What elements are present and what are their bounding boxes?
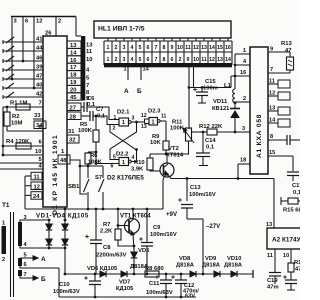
- svg-text:2: 2: [2, 257, 5, 263]
- svg-text:15: 15: [269, 150, 275, 156]
- svg-text:34: 34: [36, 123, 43, 129]
- svg-text:R4 120K: R4 120K: [6, 139, 30, 145]
- pin 11 box: [25, 172, 42, 180]
- svg-text:28: 28: [70, 114, 77, 120]
- capacitor C7 0,1: [81, 107, 106, 121]
- svg-text:11: 11: [86, 49, 93, 55]
- svg-text:L1: L1: [224, 83, 232, 89]
- node A arrow: [124, 88, 129, 95]
- svg-text:2: 2: [115, 45, 118, 51]
- pin 3 of A1: [235, 126, 250, 132]
- svg-text:7: 7: [24, 272, 27, 278]
- diode VD2: [46, 219, 52, 250]
- IC D1 KR145IK1901: [43, 36, 67, 215]
- op-amp U gate D2.3: [141, 109, 167, 131]
- pin 13 box of D1: [67, 41, 81, 49]
- svg-text:13: 13: [141, 124, 147, 130]
- pin 45 box of D1: [67, 93, 81, 101]
- pin 1 label of D1: [61, 149, 65, 155]
- pin 34 box: [34, 121, 46, 129]
- pin 2 of A1: [235, 96, 250, 102]
- svg-text:D2.2: D2.2: [116, 152, 129, 158]
- svg-text:А: А: [41, 256, 46, 263]
- resistor R15 68: [281, 197, 302, 214]
- pin 31 label: [68, 129, 75, 135]
- svg-text:10: 10: [193, 57, 199, 63]
- pin 18 box of D1: [67, 71, 81, 79]
- svg-text:31: 31: [68, 129, 75, 135]
- svg-text:S7: S7: [95, 175, 103, 181]
- svg-text:4: 4: [131, 45, 134, 51]
- node +9V: [166, 211, 178, 218]
- svg-text:10: 10: [177, 45, 183, 51]
- capacitor C13 100m/16V: [178, 177, 216, 219]
- svg-text:R7: R7: [103, 222, 110, 228]
- junction keypad column 12: [33, 87, 36, 90]
- wire feed to A1 pin 16: [189, 65, 231, 88]
- svg-text:9: 9: [171, 45, 174, 51]
- pin 7 of A1: [268, 67, 290, 73]
- capacitor C8 2200m/63V: [85, 209, 126, 274]
- svg-text:5: 5: [139, 57, 142, 63]
- pin 1 of A1: [235, 48, 250, 54]
- wire row pin 44: [3, 46, 43, 52]
- svg-text:39: 39: [36, 65, 43, 71]
- capacitor C11 100m/63V: [146, 274, 173, 297]
- wire latch cross B: [110, 125, 138, 162]
- svg-text:15: 15: [217, 45, 223, 51]
- wire latch cross A: [110, 122, 137, 160]
- svg-text:100K: 100K: [88, 160, 103, 166]
- svg-text:63V: 63V: [185, 294, 195, 300]
- capacitor C20: [283, 272, 297, 290]
- svg-text:Д818А: Д818А: [202, 263, 221, 269]
- svg-text:48: 48: [60, 158, 67, 164]
- pin 14 box of D1: [67, 48, 81, 56]
- pin 11 of A2: [267, 249, 275, 273]
- svg-text:3,9K: 3,9K: [131, 167, 144, 173]
- switch S1: [3, 37, 14, 44]
- svg-text:46: 46: [36, 56, 43, 62]
- svg-text:11: 11: [267, 253, 273, 259]
- svg-text:47: 47: [285, 48, 292, 54]
- transistor VT2 KT814: [160, 146, 184, 209]
- switch SB1: [68, 166, 89, 209]
- svg-text:КТ814: КТ814: [166, 153, 184, 159]
- svg-text:6: 6: [147, 57, 150, 63]
- svg-text:2200m/63V: 2200m/63V: [96, 253, 127, 259]
- wire resistor R12 left: [192, 131, 208, 133]
- svg-text:Т1: Т1: [2, 202, 10, 209]
- svg-text:16: 16: [225, 45, 231, 51]
- svg-text:14: 14: [143, 67, 150, 73]
- IC A1 KXA058: [250, 47, 268, 174]
- node 5 grid: [86, 76, 90, 82]
- svg-text:40: 40: [36, 83, 42, 89]
- wire tap 6: [20, 262, 59, 268]
- wire row pin 47: [3, 74, 43, 80]
- pin 24 box: [25, 192, 42, 200]
- svg-text:Б: Б: [41, 276, 46, 283]
- switch S7: [95, 166, 104, 209]
- svg-text:VD7: VD7: [119, 280, 130, 286]
- wire tap 3: [20, 215, 49, 222]
- svg-text:9: 9: [187, 57, 190, 63]
- svg-text:3: 3: [132, 116, 135, 122]
- svg-text:2,2K: 2,2K: [100, 229, 113, 235]
- svg-text:R15 68: R15 68: [283, 208, 300, 214]
- svg-text:100m/63V: 100m/63V: [53, 289, 80, 295]
- svg-text:14: 14: [269, 118, 276, 124]
- svg-text:VD10: VD10: [227, 256, 242, 262]
- svg-text:1: 1: [114, 115, 117, 121]
- svg-text:3: 3: [24, 215, 27, 221]
- svg-text:7: 7: [270, 67, 273, 73]
- wire pin 4 row: [0, 164, 43, 170]
- IC D2 label: [107, 175, 144, 182]
- svg-text:100m/63V: 100m/63V: [146, 290, 173, 296]
- svg-text:100m/16V: 100m/16V: [189, 192, 216, 198]
- svg-text:1: 1: [122, 120, 125, 126]
- svg-text:100K: 100K: [170, 126, 185, 132]
- wire drop to R11: [188, 65, 191, 129]
- wire left common: [3, 106, 8, 155]
- pin 9 of A1: [268, 47, 290, 53]
- wire row pin 40: [3, 83, 43, 89]
- capacitor C17 0,1: [287, 156, 303, 196]
- svg-text:12: 12: [209, 57, 215, 63]
- diode VD4: [62, 239, 68, 275]
- switch S5: [3, 74, 14, 81]
- pin 14 of A1: [268, 118, 290, 128]
- svg-text:27: 27: [70, 105, 76, 111]
- svg-text:2: 2: [113, 126, 116, 132]
- display pin numbers: [107, 38, 231, 63]
- svg-text:12: 12: [141, 113, 147, 119]
- capacitor C10 100m/63V: [53, 274, 101, 297]
- svg-text:2: 2: [179, 57, 182, 63]
- svg-text:100m/16V: 100m/16V: [150, 232, 177, 238]
- pin 28 box of D1: [67, 112, 81, 120]
- svg-text:C7: C7: [96, 107, 103, 113]
- svg-text:0,1: 0,1: [87, 102, 96, 108]
- pin 16 of A1: [231, 70, 250, 76]
- switch S4: [3, 65, 14, 72]
- winding secondary 3-4: [18, 222, 22, 246]
- node -27V: [206, 223, 221, 230]
- svg-text:45: 45: [70, 95, 77, 101]
- display pin connector grid: [104, 41, 232, 65]
- wire pin 18 drop: [237, 164, 240, 180]
- pin 32 box of D1: [67, 135, 79, 144]
- pin 4 of A1: [235, 59, 250, 65]
- svg-text:R1 1M: R1 1M: [10, 101, 27, 107]
- pin 11 of A1: [268, 79, 290, 89]
- wire C13 to -27V net: [187, 219, 204, 275]
- wire tap 4: [20, 242, 65, 248]
- svg-text:10K: 10K: [150, 140, 161, 146]
- resistor R5 100K: [78, 116, 99, 142]
- svg-text:HL1 ИВЛ 1-7/5: HL1 ИВЛ 1-7/5: [98, 26, 145, 33]
- wire A1 input bus: [234, 54, 237, 89]
- node 6: [23, 17, 29, 62]
- svg-text:2: 2: [58, 19, 61, 25]
- node 7 grid: [86, 83, 89, 89]
- svg-text:VT2: VT2: [168, 146, 180, 152]
- node B2 arrow: [41, 276, 46, 283]
- winding secondary 6-7: [18, 270, 22, 276]
- resistor R2 10M: [4, 107, 23, 131]
- node 9 grid: [86, 96, 90, 102]
- wire tap6 drop to ground rail: [58, 268, 60, 297]
- node 10 grid: [86, 57, 92, 63]
- IC A2 K174UN7: [267, 228, 309, 249]
- switch S2: [3, 46, 14, 53]
- svg-text:VD11: VD11: [213, 99, 228, 105]
- resistor R8 680: [145, 266, 164, 277]
- svg-text:2: 2: [115, 57, 118, 63]
- svg-text:1: 1: [107, 45, 110, 51]
- svg-text:C17: C17: [292, 183, 300, 189]
- diode VD1: [46, 220, 52, 239]
- resistor R11 100K trimmer: [170, 120, 194, 144]
- svg-text:47: 47: [36, 74, 42, 80]
- svg-text:D2 К176ЛЕ5: D2 К176ЛЕ5: [107, 175, 144, 182]
- wire R10 to VT2 base: [150, 170, 160, 171]
- node 8 grid: [86, 90, 90, 96]
- svg-text:VD5: VD5: [138, 248, 150, 254]
- svg-text:А1 КХА 058: А1 КХА 058: [256, 114, 263, 158]
- svg-text:VD1-VD4 КД105: VD1-VD4 КД105: [36, 213, 89, 220]
- svg-text:7: 7: [39, 101, 42, 107]
- switch S7: [3, 92, 14, 99]
- svg-text:D1 КР 145 ИК 1901: D1 КР 145 ИК 1901: [52, 134, 59, 215]
- svg-text:12: 12: [36, 19, 42, 25]
- svg-text:R13: R13: [281, 41, 293, 47]
- capacitor C12 470m/63V: [171, 274, 199, 300]
- svg-text:12: 12: [34, 184, 40, 190]
- pin 26 of D1: [45, 31, 52, 37]
- diodes VD1-VD4 KD105 label: [36, 213, 89, 220]
- svg-text:10: 10: [283, 253, 289, 259]
- svg-text:R2: R2: [12, 114, 20, 120]
- wire base rail y154: [150, 153, 189, 155]
- svg-text:C13: C13: [190, 185, 201, 191]
- junction keypad column 6: [22, 60, 25, 63]
- svg-text:10: 10: [86, 57, 92, 63]
- wire R5 to node 6: [95, 142, 98, 165]
- pin 33 stub: [33, 113, 43, 119]
- svg-text:5: 5: [139, 45, 142, 51]
- svg-text:VD6 КД105: VD6 КД105: [87, 266, 118, 272]
- svg-text:R6: R6: [90, 153, 98, 159]
- pin 12 of A1: [268, 91, 290, 101]
- wire tap 5 to A: [20, 253, 38, 261]
- wire row pin 42: [3, 92, 43, 98]
- resistor R16 47: [288, 260, 302, 273]
- wire gate input 6: [96, 163, 119, 165]
- pin 13 of A1: [268, 106, 290, 116]
- svg-text:8: 8: [163, 57, 166, 63]
- svg-text:4: 4: [131, 57, 134, 63]
- wire row pin 41: [3, 37, 43, 43]
- node 11 grid: [86, 49, 93, 55]
- wire ground rail: [59, 296, 196, 299]
- core T1: [11, 212, 14, 297]
- svg-text:11: 11: [201, 57, 207, 63]
- svg-text:7: 7: [155, 57, 158, 63]
- svg-text:13: 13: [217, 57, 223, 63]
- switch S3: [3, 56, 14, 63]
- svg-text:6: 6: [171, 57, 174, 63]
- node 3: [12, 17, 18, 80]
- svg-text:C14: C14: [205, 138, 216, 144]
- svg-text:R1: R1: [294, 260, 300, 266]
- svg-text:1: 1: [2, 221, 5, 227]
- wire tap 7 to B: [20, 272, 38, 280]
- svg-text:11: 11: [161, 114, 167, 120]
- svg-text:1: 1: [124, 67, 127, 73]
- wire display bus bar: [76, 17, 85, 101]
- node 4 grid: [86, 68, 90, 74]
- svg-text:42: 42: [36, 92, 42, 98]
- svg-text:C15: C15: [205, 79, 216, 85]
- svg-text:18: 18: [240, 158, 246, 164]
- svg-text:3: 3: [123, 45, 126, 51]
- svg-text:Д818А: Д818А: [176, 263, 195, 269]
- pin 48 box of D1: [58, 155, 70, 164]
- capacitor C9 100m/16V: [139, 209, 177, 274]
- svg-text:6: 6: [147, 45, 150, 51]
- wire pin 10 row: [2, 149, 43, 156]
- wire switch feed: [70, 160, 103, 194]
- svg-text:7: 7: [155, 45, 158, 51]
- diode VD5 D818A: [130, 246, 150, 274]
- wire row pin 46: [3, 56, 43, 62]
- wire D2.3 out to R9: [165, 121, 167, 141]
- svg-text:5: 5: [113, 155, 116, 161]
- svg-text:D2.1: D2.1: [117, 110, 130, 116]
- svg-text:24: 24: [33, 194, 40, 200]
- capacitor C14 0,1: [196, 132, 216, 166]
- svg-text:33: 33: [34, 113, 41, 119]
- pin 8 of A1 with capacitor: [268, 134, 300, 145]
- capacitor C19 47m: [267, 273, 281, 291]
- diode VD8 D818A: [176, 256, 196, 277]
- wire VT2 emitter to A2 feed: [170, 177, 275, 179]
- svg-text:32: 32: [69, 138, 75, 144]
- svg-text:13: 13: [266, 222, 272, 228]
- wire C7 to gate input 2: [95, 115, 119, 125]
- svg-text:D2.3: D2.3: [148, 109, 161, 115]
- svg-text:R8 680: R8 680: [145, 266, 164, 272]
- capacitor C6 0,1: [81, 96, 96, 112]
- svg-text:C8: C8: [103, 245, 111, 251]
- wire R6 branch: [88, 151, 96, 153]
- svg-text:14: 14: [225, 57, 231, 63]
- svg-text:100K: 100K: [78, 128, 93, 134]
- wire top keypad bus: [11, 16, 76, 18]
- transistor VT1 KT604: [120, 209, 151, 250]
- op-amp U gate D2.2: [111, 152, 137, 170]
- svg-text:3: 3: [242, 126, 245, 132]
- display HL1 IVL1-7/5: [94, 21, 231, 38]
- pin 18 of A1: [238, 158, 250, 165]
- svg-text:VD8: VD8: [179, 256, 191, 262]
- svg-text:0,1: 0,1: [293, 190, 300, 196]
- svg-text:R10: R10: [134, 160, 145, 166]
- resistor R4 120K: [2, 139, 43, 149]
- svg-text:Д818А: Д818А: [224, 263, 243, 269]
- resistor R9 10K: [150, 134, 169, 150]
- svg-text:100m: 100m: [203, 85, 218, 91]
- node A2 arrow: [41, 256, 46, 263]
- svg-text:47: 47: [295, 267, 300, 273]
- svg-text:13: 13: [86, 43, 93, 49]
- diode VD9 D818A: [202, 256, 221, 277]
- wire pin 8 row: [7, 125, 43, 131]
- wire R11 bottom: [188, 141, 190, 154]
- svg-text:12: 12: [269, 91, 275, 97]
- svg-text:1: 1: [107, 57, 110, 63]
- winding primary T1: [2, 221, 7, 264]
- svg-text:А: А: [124, 88, 129, 95]
- svg-text:44: 44: [36, 46, 43, 52]
- resistor R13 47: [281, 41, 294, 73]
- svg-text:C11: C11: [149, 281, 160, 287]
- svg-text:А2 К174УН7: А2 К174УН7: [272, 237, 300, 244]
- wire row pin 39: [3, 65, 43, 71]
- node 12: [34, 17, 42, 89]
- svg-text:1: 1: [243, 48, 246, 54]
- svg-text:41: 41: [36, 37, 43, 43]
- svg-text:8: 8: [270, 134, 273, 140]
- svg-text:8: 8: [163, 45, 166, 51]
- wire R9 bottom: [165, 150, 168, 155]
- svg-text:47m: 47m: [267, 285, 279, 291]
- svg-text:16: 16: [240, 70, 246, 76]
- svg-text:3: 3: [123, 57, 126, 63]
- diode VD3: [62, 209, 68, 239]
- node 2: [56, 17, 61, 37]
- svg-text:C9: C9: [153, 225, 161, 231]
- resistor R10 3,9K: [131, 154, 153, 173]
- wire C6 to gate input 1: [96, 107, 119, 120]
- svg-text:2: 2: [243, 96, 246, 102]
- pin 20 box of D1: [67, 85, 81, 93]
- svg-text:11: 11: [269, 79, 275, 85]
- capacitor C15 100m: [193, 79, 218, 103]
- pin 12 box: [25, 182, 42, 190]
- wire display bottom bus: [104, 63, 232, 67]
- diode VD7 KD105: [116, 271, 134, 292]
- svg-text:13: 13: [269, 106, 275, 112]
- svg-text:–27V: –27V: [206, 223, 221, 230]
- wire pin 5 row: [0, 157, 43, 163]
- transformer T1: [2, 202, 10, 209]
- svg-text:C19: C19: [267, 278, 278, 284]
- varicap VD11 KB121: [212, 99, 240, 132]
- svg-text:7: 7: [86, 83, 89, 89]
- pin 17 box of D1: [67, 63, 81, 71]
- pin 10 of A2: [283, 249, 291, 263]
- svg-text:6: 6: [111, 164, 114, 170]
- svg-text:6: 6: [24, 262, 27, 268]
- svg-text:1: 1: [152, 120, 155, 126]
- svg-text:9: 9: [270, 47, 273, 53]
- wire filament B drop: [141, 67, 150, 81]
- junction keypad column 3: [11, 78, 14, 81]
